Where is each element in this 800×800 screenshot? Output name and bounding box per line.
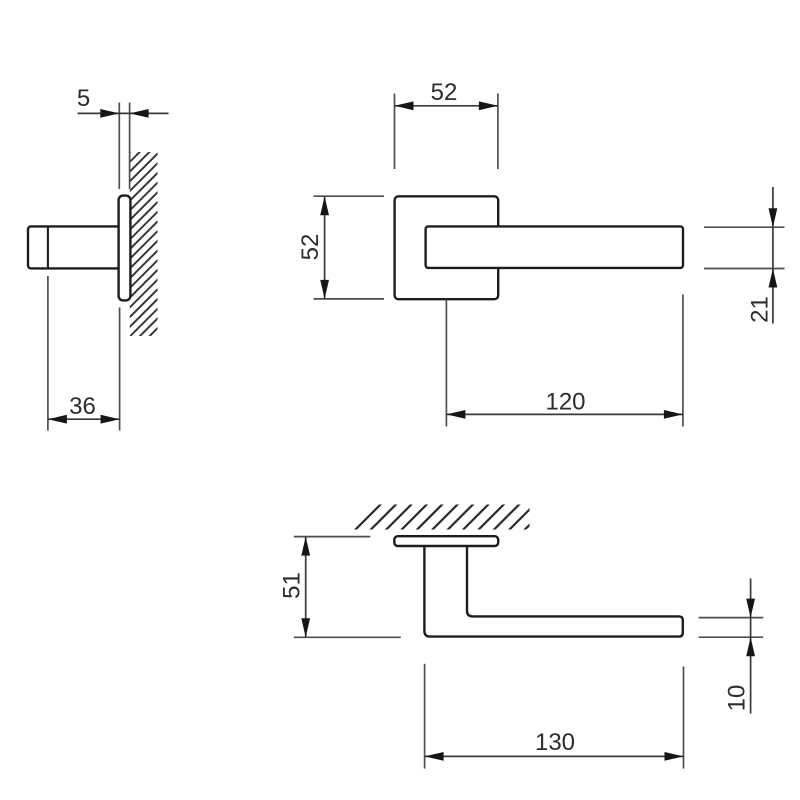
dimension line 130 — [425, 755, 684, 757]
extension line 130 right — [683, 667, 685, 769]
arrow right (dim 120) — [664, 410, 683, 419]
extension line 36 left — [47, 276, 49, 431]
extension line 51 bottom — [294, 636, 401, 638]
extension line 120 right — [682, 295, 684, 427]
extension line 10 top — [699, 617, 764, 619]
rose plate (profile view) — [394, 536, 498, 546]
extension line 51 top — [294, 536, 371, 538]
extension line 120 left — [445, 299, 447, 426]
wall hatching (side view, left) — [126, 120, 162, 369]
arrow left (dim 130) — [425, 752, 444, 761]
extension line: rose front face (dim 5) — [118, 103, 120, 190]
arrow up (dim 51) — [301, 537, 310, 556]
arrow right (dim 36) — [101, 415, 120, 424]
dimension line 52 top — [395, 105, 498, 107]
dimension line 51 — [305, 537, 307, 638]
extension line 21 top — [704, 226, 785, 228]
extension line 52-top right — [497, 94, 499, 170]
arrow up-pointing (dim 21 bottom) — [769, 269, 778, 288]
arrow right (dim 5) — [130, 109, 149, 118]
arrow up (dim 52 left) — [320, 196, 329, 215]
rose square (front view) — [395, 196, 499, 299]
handle stem (side view) — [28, 226, 120, 268]
svg-text:36: 36 — [69, 393, 96, 420]
svg-text:130: 130 — [535, 729, 575, 756]
arrow down (dim 52 left) — [320, 280, 329, 299]
dimension line 10 — [750, 579, 752, 714]
svg-text:51: 51 — [279, 572, 306, 599]
arrow down-pointing (dim 21 top) — [769, 208, 778, 227]
dimension line 36 — [48, 418, 120, 420]
extension line 10 bottom — [699, 636, 764, 638]
extension line 21 bottom — [704, 268, 785, 270]
svg-text:5: 5 — [77, 85, 90, 112]
extension line 52-left top — [314, 195, 385, 197]
wall hatching (profile view, bottom) — [352, 502, 552, 533]
extension line 36 right / wall line below rose — [119, 308, 121, 431]
arrow up-pointing (dim 10 bottom) — [746, 637, 755, 656]
lever profile (neck and grip) — [424, 547, 682, 637]
arrow left (dim 5) — [100, 109, 119, 118]
arrow right (dim 130) — [665, 752, 684, 761]
svg-text:21: 21 — [747, 296, 774, 323]
svg-text:52: 52 — [431, 79, 458, 106]
svg-text:10: 10 — [724, 685, 751, 712]
arrow left (dim 120) — [446, 410, 465, 419]
arrow down (dim 51) — [301, 618, 310, 637]
dimension line 120 — [446, 413, 683, 415]
svg-text:120: 120 — [545, 388, 585, 415]
dimension line 52 left — [324, 196, 326, 299]
svg-text:52: 52 — [297, 234, 324, 261]
extension line 52-left bottom — [314, 298, 385, 300]
arrow down-pointing (dim 10 top) — [746, 599, 755, 618]
dimension line 5 — [78, 112, 169, 114]
stem end cap line — [47, 227, 49, 267]
extension line 52-top left — [394, 94, 396, 170]
arrow right (dim 52 top) — [479, 101, 498, 110]
dimension line 21 — [772, 187, 774, 324]
extension line: wall face (dim 5) — [129, 103, 131, 190]
extension line 130 left — [424, 664, 426, 769]
arrow left (dim 36) — [48, 415, 67, 424]
lever grip (front view) — [426, 226, 683, 268]
rose plate (side view) — [119, 196, 131, 301]
arrow left (dim 52 top) — [395, 101, 414, 110]
